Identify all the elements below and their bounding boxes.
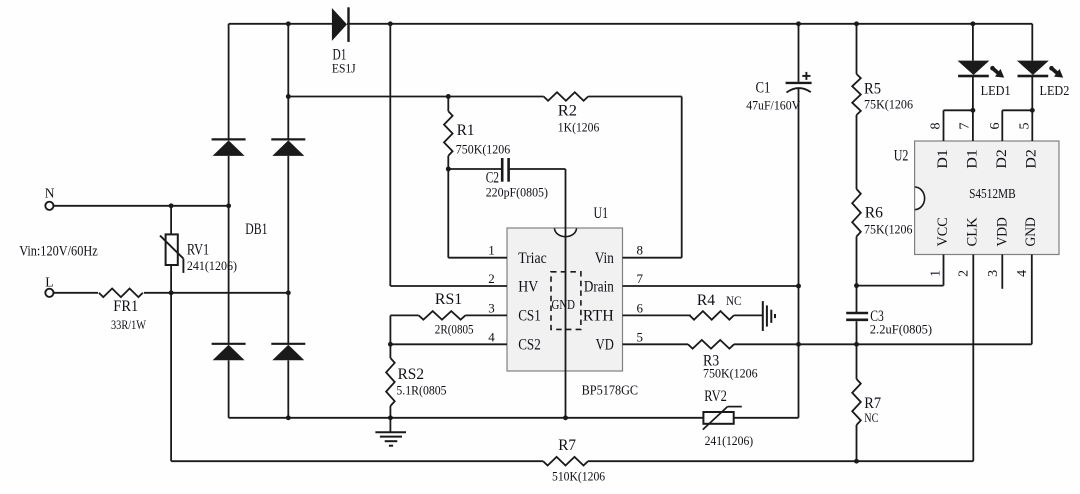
- svg-text:L: L: [45, 274, 53, 289]
- svg-text:R7: R7: [558, 437, 576, 454]
- svg-text:7: 7: [958, 123, 973, 130]
- svg-text:S4512MB: S4512MB: [969, 186, 1016, 201]
- svg-text:ES1J: ES1J: [332, 61, 356, 76]
- svg-text:8: 8: [929, 123, 944, 130]
- svg-text:CS2: CS2: [518, 337, 541, 354]
- svg-text:RV1: RV1: [187, 242, 209, 259]
- svg-text:LED1: LED1: [981, 84, 1011, 99]
- svg-text:2R(0805: 2R(0805: [435, 321, 474, 336]
- svg-text:RV2: RV2: [704, 388, 727, 405]
- svg-text:FR1: FR1: [113, 298, 138, 315]
- svg-text:2: 2: [488, 271, 495, 286]
- svg-text:4: 4: [1015, 270, 1030, 277]
- svg-text:R1: R1: [457, 122, 475, 139]
- svg-text:Triac: Triac: [518, 250, 547, 267]
- svg-text:D1: D1: [964, 149, 980, 168]
- svg-text:R4: R4: [697, 292, 715, 309]
- svg-text:N: N: [45, 186, 55, 201]
- svg-text:LED2: LED2: [1040, 84, 1070, 99]
- svg-text:Vin:120V/60Hz: Vin:120V/60Hz: [19, 244, 98, 260]
- svg-text:2: 2: [957, 270, 972, 277]
- svg-text:DB1: DB1: [245, 221, 267, 238]
- svg-text:CS1: CS1: [518, 308, 541, 325]
- svg-text:VCC: VCC: [935, 217, 951, 246]
- svg-text:D2: D2: [1023, 149, 1039, 168]
- svg-text:75K(1206: 75K(1206: [864, 97, 913, 112]
- svg-text:R5: R5: [864, 81, 881, 98]
- svg-text:8: 8: [637, 243, 644, 258]
- svg-text:241(1206): 241(1206): [705, 433, 754, 448]
- svg-text:5.1R(0805: 5.1R(0805: [396, 383, 446, 398]
- svg-text:C1: C1: [756, 80, 771, 97]
- svg-text:3: 3: [986, 270, 1001, 277]
- svg-text:33R/1W: 33R/1W: [111, 317, 147, 332]
- svg-text:6: 6: [988, 123, 1003, 130]
- svg-text:NC: NC: [726, 293, 741, 308]
- svg-text:1: 1: [928, 270, 943, 277]
- svg-text:R6: R6: [865, 205, 883, 222]
- svg-text:Drain: Drain: [584, 278, 614, 295]
- svg-text:GND: GND: [552, 298, 576, 313]
- svg-text:VDD: VDD: [994, 217, 1010, 246]
- svg-text:BP5178GC: BP5178GC: [582, 384, 639, 399]
- svg-text:47uF/160V: 47uF/160V: [746, 98, 801, 113]
- svg-text:U1: U1: [594, 205, 609, 222]
- svg-text:RTH: RTH: [583, 308, 614, 325]
- svg-text:7: 7: [637, 271, 644, 286]
- svg-text:HV: HV: [518, 278, 538, 295]
- svg-text:750K(1206: 750K(1206: [456, 142, 511, 157]
- svg-text:4: 4: [488, 329, 495, 344]
- svg-text:GND: GND: [1023, 217, 1039, 246]
- svg-text:RS1: RS1: [435, 291, 462, 308]
- svg-text:D1: D1: [935, 149, 951, 168]
- svg-text:RS2: RS2: [398, 366, 424, 383]
- svg-text:U2: U2: [894, 148, 909, 165]
- svg-text:3: 3: [488, 300, 495, 315]
- svg-text:1K(1206: 1K(1206: [558, 119, 600, 134]
- svg-text:6: 6: [637, 300, 644, 315]
- svg-text:5: 5: [637, 329, 644, 344]
- svg-text:220pF(0805): 220pF(0805): [486, 185, 548, 200]
- svg-text:VD: VD: [596, 337, 614, 354]
- svg-text:R2: R2: [558, 103, 577, 120]
- svg-text:NC: NC: [864, 410, 878, 425]
- svg-text:CLK: CLK: [965, 217, 981, 246]
- svg-text:75K(1206: 75K(1206: [864, 222, 913, 237]
- svg-text:Vin: Vin: [595, 250, 614, 267]
- svg-text:510K(1206: 510K(1206: [552, 469, 606, 484]
- svg-text:241(1206): 241(1206): [187, 258, 237, 273]
- svg-text:1: 1: [488, 243, 495, 258]
- svg-text:2.2uF(0805): 2.2uF(0805): [870, 322, 932, 337]
- svg-text:750K(1206: 750K(1206: [703, 366, 758, 381]
- svg-text:D2: D2: [994, 149, 1010, 168]
- svg-text:5: 5: [1018, 123, 1033, 130]
